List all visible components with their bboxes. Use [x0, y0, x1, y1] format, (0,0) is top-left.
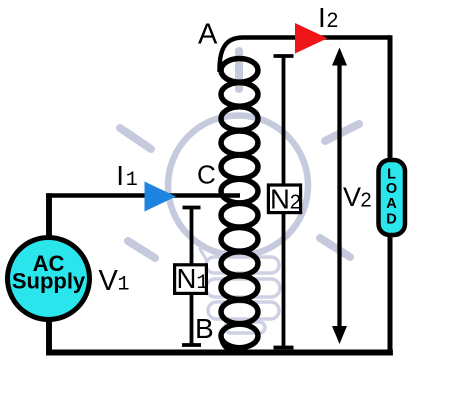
- svg-text:C: C: [197, 160, 216, 190]
- svg-text:V: V: [99, 265, 119, 297]
- svg-text:1: 1: [126, 169, 138, 192]
- svg-text:V: V: [343, 182, 361, 212]
- svg-text:A: A: [198, 19, 218, 51]
- svg-text:Supply: Supply: [12, 269, 86, 294]
- svg-text:A: A: [386, 196, 397, 212]
- svg-text:I: I: [116, 160, 124, 191]
- svg-text:2: 2: [327, 9, 339, 32]
- svg-text:D: D: [386, 212, 396, 228]
- svg-text:B: B: [195, 313, 214, 344]
- svg-text:O: O: [386, 181, 397, 197]
- svg-text:2: 2: [361, 190, 372, 212]
- svg-text:1: 1: [118, 274, 130, 297]
- svg-text:L: L: [387, 166, 396, 182]
- svg-text:I: I: [318, 2, 326, 33]
